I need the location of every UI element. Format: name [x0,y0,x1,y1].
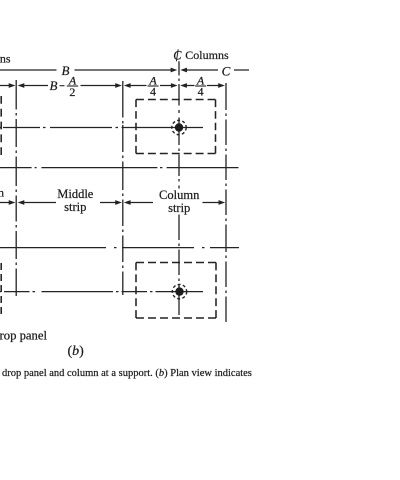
svg-text:2: 2 [69,85,75,99]
svg-text:4: 4 [150,84,156,98]
svg-text:Column: Column [159,188,200,202]
svg-text:C: C [173,49,182,63]
svg-text:rop panel: rop panel [0,329,48,343]
svg-text:4: 4 [198,84,204,98]
svg-text:C: C [222,64,231,79]
svg-text:Middle: Middle [57,187,94,201]
svg-text:strip: strip [168,201,190,215]
svg-text:Columns: Columns [185,48,229,62]
svg-text:strip: strip [64,200,86,214]
svg-text:n: n [0,186,4,200]
svg-text:drop panel and column at a sup: drop panel and column at a support. (b) … [2,368,252,379]
svg-text:(b): (b) [68,344,85,359]
svg-text:B: B [50,78,58,93]
svg-text:ns: ns [0,52,11,66]
